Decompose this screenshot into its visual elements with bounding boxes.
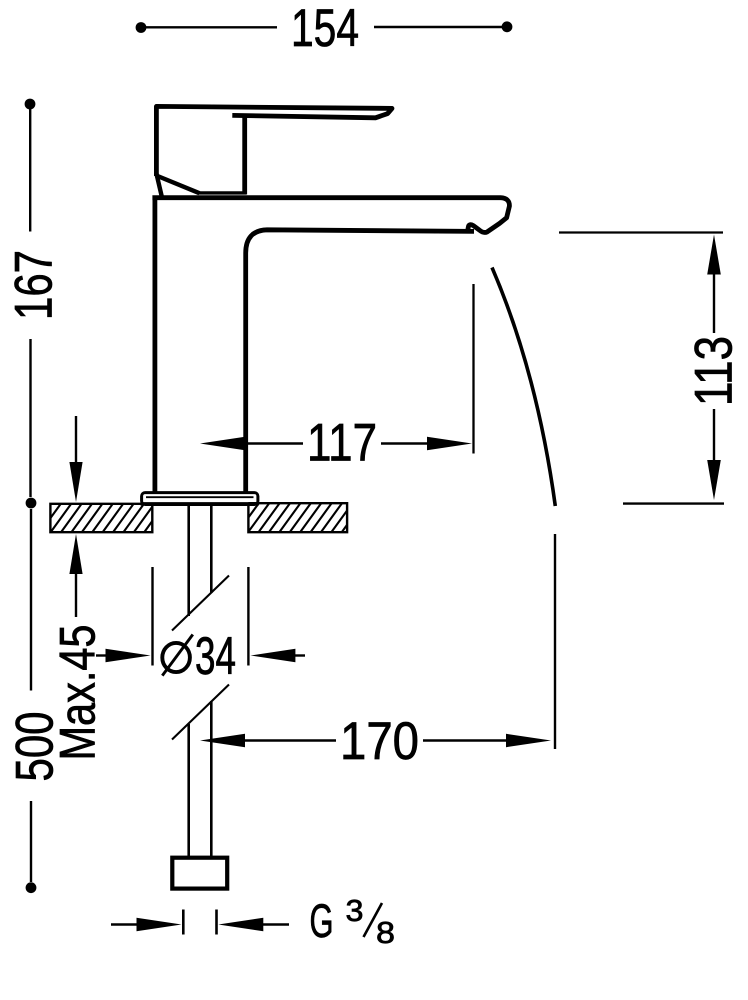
dimension O34 right arrow line [295, 654, 305, 656]
svg-text:3: 3 [346, 893, 364, 928]
faucet handle lever outline [156, 106, 392, 176]
supply pipe lower left line [187, 724, 190, 858]
dimension G3/8 right line [262, 923, 289, 925]
svg-text:G: G [310, 894, 334, 947]
faucet handle base seam [198, 191, 246, 194]
dimension 117 extension line [472, 284, 474, 454]
dimension 167 top dot [25, 99, 36, 110]
dimension G3/8 left line [111, 923, 140, 925]
faucet body top and spout outline [152, 198, 509, 493]
dimension O34 left arrow line [96, 654, 110, 656]
dimension 113 bottom extension line [623, 502, 724, 504]
dimension O34 label diameter slash [162, 635, 193, 676]
svg-text:167: 167 [5, 250, 64, 320]
supply pipe upper right line [210, 505, 213, 593]
dimension 113 top extension line [559, 231, 723, 233]
svg-text:154: 154 [291, 0, 359, 58]
dimension G3/8 left-pointing arrowhead [218, 918, 263, 931]
dimension 113 upper line [713, 272, 715, 333]
faucet body left edge [152, 196, 157, 494]
faucet handle stem right edge [242, 117, 247, 194]
base flange [142, 493, 258, 505]
dimension O34 label diameter circle [162, 643, 190, 672]
dimension Max.45 upper line [75, 416, 77, 466]
svg-text:34: 34 [195, 627, 236, 686]
dimension O34 right arrowhead [250, 649, 295, 662]
dimension 154 right line [374, 26, 502, 28]
dimension 117 right line [381, 442, 428, 444]
dimension O34 left arrowhead [106, 649, 151, 662]
countertop right block border [248, 503, 347, 532]
countertop left block hatching [50, 504, 152, 532]
base flange inner line [146, 496, 254, 498]
pipe break lower diagonal [172, 685, 229, 740]
thread label fraction slash [364, 903, 383, 937]
dimension 167 upper line [29, 109, 31, 232]
dimension 500 bottom dot [26, 882, 37, 893]
dimension 113 up arrowhead [707, 235, 721, 275]
dimension Max.45 up arrow [69, 534, 82, 574]
svg-text:113: 113 [685, 336, 744, 406]
faucet handle bottom diagonal [158, 176, 200, 193]
dimension G3/8 left tick [182, 910, 185, 935]
pipe break upper diagonal [172, 576, 229, 631]
supply pipe lower right line [210, 701, 213, 858]
dimension Max.45 down arrow [69, 462, 82, 502]
dimension 170 left line [244, 739, 336, 741]
dimension 170 right line [423, 739, 508, 741]
dimension 154 right dot [502, 21, 513, 32]
supply pipe upper left line [187, 505, 190, 616]
dimension 113 lower line [713, 409, 715, 463]
svg-text:Max.45: Max.45 [50, 625, 106, 761]
svg-text:8: 8 [376, 915, 395, 950]
countertop right block hatching [248, 503, 347, 532]
dimension 154 left dot [136, 22, 147, 33]
dimension O34 right tick [247, 567, 249, 666]
water stream [492, 268, 555, 507]
dimension 117 left arrowhead [200, 437, 245, 450]
dimension O34 left tick [151, 567, 153, 666]
dimension 170 left arrowhead [200, 734, 245, 747]
base flange bottom edge [141, 502, 259, 505]
dimension 500 lower line [30, 801, 32, 882]
countertop left block border [50, 504, 152, 532]
dimension G3/8 right-pointing arrowhead [137, 918, 182, 931]
dimension 117 right arrowhead [427, 437, 472, 450]
dimension 170 extension line [554, 534, 556, 749]
dimension 117 left line [244, 442, 303, 444]
dimension 170 right arrowhead [506, 734, 551, 747]
svg-text:170: 170 [340, 712, 419, 771]
dimension 154 left line [146, 26, 277, 28]
shared dot dimensions 167/500 [26, 498, 37, 509]
faucet handle left kink edge [156, 174, 161, 197]
dimension 167 lower line [29, 339, 31, 497]
dimension Max.45 lower line [75, 570, 77, 617]
pipe end connector [172, 858, 227, 889]
svg-text:117: 117 [307, 414, 377, 473]
dimension 500 upper line [30, 509, 32, 691]
dimension 113 down arrowhead [707, 460, 721, 500]
dimension G3/8 right tick [215, 910, 218, 935]
